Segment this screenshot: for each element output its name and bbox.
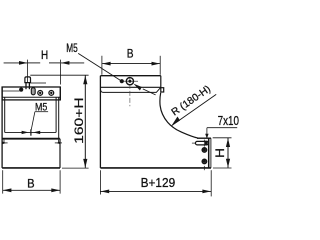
7x10 leader underline — [207, 127, 237, 129]
dim H extension lines — [27, 60, 29, 83]
rivet dot on flange — [19, 88, 23, 92]
arrow pointing right at tick — [22, 131, 29, 134]
channel inner bottom line — [5, 131, 56, 133]
slot dark right end — [205, 141, 208, 145]
right inner wall — [55, 97, 57, 132]
hole centreline vertical — [129, 77, 131, 106]
bottom centre tick — [203, 166, 205, 170]
svg-text:7x10: 7x10 — [218, 113, 239, 128]
svg-text:B: B — [127, 47, 134, 61]
lower block right edge — [59, 139, 61, 168]
dim 160+H vertical line — [84, 75, 86, 168]
dim 160+H bottom extension line — [62, 167, 89, 169]
hole 2 on flange — [49, 91, 54, 96]
small arrow at lower-left corner — [2, 142, 7, 144]
svg-text:H: H — [215, 148, 227, 158]
channel outer bottom heavy line — [2, 138, 60, 140]
dim H (right) top extension — [213, 137, 232, 139]
svg-text:B: B — [27, 177, 35, 191]
R leader arrowhead — [171, 117, 180, 126]
screw head seat line — [30, 82, 46, 84]
small arrow at lower-right corner — [55, 142, 62, 144]
dim 160+H top extension line — [30, 74, 88, 76]
flange left step line — [2, 90, 20, 92]
hole 1 on flange — [38, 91, 43, 96]
svg-text:160+H: 160+H — [72, 97, 86, 144]
end plate top edge — [197, 137, 211, 139]
leader dot terminator — [120, 79, 124, 83]
end plate right edges — [208, 138, 210, 168]
slot in flange — [31, 88, 35, 95]
dim 160+H arrows — [83, 76, 87, 85]
arrow pointing at hole from lower right — [143, 89, 156, 95]
screw shank — [25, 83, 27, 90]
flange mid line — [100, 86, 160, 88]
dim H (right) vertical line — [227, 138, 229, 168]
dim B+129 arrows — [101, 190, 110, 194]
dim B line — [3, 189, 60, 191]
flange lower lip — [100, 87, 160, 92]
dim B+129 line — [100, 190, 211, 192]
svg-text:H: H — [41, 50, 48, 62]
screw M5 head — [25, 77, 31, 83]
dim H line left tail + arrow — [4, 62, 28, 64]
hole crosshair horizontal — [121, 80, 138, 82]
curved profile — [160, 93, 198, 138]
dim B line + arrows — [102, 63, 160, 65]
flange right edge — [59, 87, 61, 100]
dim H line right tail + arrow — [61, 62, 84, 64]
flange top plate outline — [2, 87, 60, 100]
M5 inner underline — [35, 111, 48, 113]
flange top edge — [100, 75, 160, 77]
arrow pointing left at tick — [33, 131, 40, 134]
M5 hole circle — [126, 78, 133, 85]
hole 2 in end plate — [202, 159, 206, 163]
bottom edge — [100, 167, 211, 169]
right outer wall — [58, 97, 60, 138]
7x10 leader vertical + arrow — [206, 128, 208, 135]
dim B+129 extension lines — [99, 170, 101, 194]
dim B (left view) extension lines — [2, 170, 4, 193]
R leader line — [172, 94, 216, 125]
7x10 slot — [195, 141, 208, 145]
svg-text:M5: M5 — [66, 43, 78, 55]
M5 tap centre tick — [30, 129, 32, 135]
dim B arrows — [3, 188, 12, 192]
flange right edge — [160, 76, 162, 88]
dim B (right view) extension lines — [101, 56, 103, 75]
flange inner fold line — [2, 96, 60, 98]
dim H (right) bottom extension — [213, 167, 232, 169]
slot centre ticks — [203, 140, 205, 147]
left edge — [99, 76, 101, 168]
left inner wall — [4, 97, 6, 132]
hole 1 in end plate — [202, 148, 206, 152]
left outer edge — [1, 87, 3, 168]
M5 top leader to right view hole — [78, 53, 122, 81]
M5 inner leader — [31, 112, 35, 132]
bottom edge — [2, 167, 60, 169]
svg-text:B+129: B+129 — [141, 175, 176, 190]
dim H (right) arrows — [226, 138, 230, 147]
clamp tab — [161, 88, 164, 92]
